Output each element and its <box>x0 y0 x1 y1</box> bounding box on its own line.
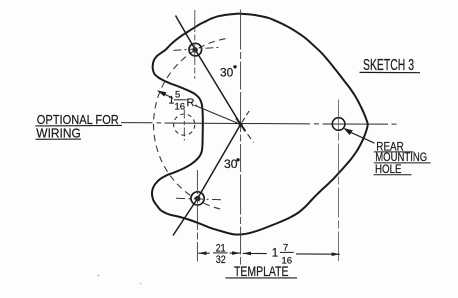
dim line 1 7/16 left arrow <box>243 252 267 254</box>
underline HOLE <box>374 174 412 176</box>
underline MOUNTING <box>374 162 431 164</box>
bottom hole horizontal crosshair <box>176 198 224 200</box>
dashed extension of bottom 30-deg line <box>241 110 250 124</box>
bottom hole <box>191 192 204 205</box>
scan speck <box>98 275 100 277</box>
svg-text:SKETCH 3: SKETCH 3 <box>363 57 414 74</box>
rear mounting hole <box>332 118 345 131</box>
top hole vertical crosshair <box>194 10 196 79</box>
underline TEMPLATE <box>226 277 298 279</box>
rear hole vertical crosshair / extension line <box>337 100 339 262</box>
center junction <box>239 122 243 126</box>
svg-text:30: 30 <box>224 159 238 171</box>
dim line 21/32 left arrow <box>198 252 210 254</box>
radius leader line <box>158 91 241 124</box>
radius arrowhead <box>157 90 167 96</box>
bottom hole vertical crosshair / extension line <box>196 170 198 262</box>
bolt circle (dashed, 1 5/16 R) <box>154 39 226 210</box>
svg-text:WIRING: WIRING <box>36 125 81 140</box>
top hole horizontal crosshair <box>174 47 221 50</box>
svg-text:HOLE: HOLE <box>375 162 402 176</box>
template outline <box>152 14 368 235</box>
vertical centerline <box>240 10 242 265</box>
wire hole dashed circle <box>174 114 195 135</box>
svg-text:TEMPLATE: TEMPLATE <box>234 263 289 279</box>
svg-text:32: 32 <box>216 254 226 266</box>
rear hole leader arrowhead <box>343 128 353 135</box>
underline WIRING <box>36 138 82 140</box>
top hole <box>189 43 202 56</box>
svg-text:5: 5 <box>175 90 180 101</box>
dim line 1 7/16 right arrow <box>296 253 340 255</box>
wire hole vertical crosshair <box>183 110 185 141</box>
underline OPTIONAL FOR <box>36 124 123 127</box>
svg-text:16: 16 <box>175 102 186 113</box>
dim line 21/32 right arrow <box>230 252 241 254</box>
svg-text:1: 1 <box>272 247 278 259</box>
30-deg line to bottom hole <box>173 124 241 235</box>
svg-text:7: 7 <box>283 242 288 253</box>
dashed extension of top 30-deg line <box>241 124 254 142</box>
underline SKETCH 3 <box>360 71 421 73</box>
rear hole leader line <box>346 130 375 143</box>
horizontal centerline <box>121 123 397 125</box>
svg-text:1: 1 <box>168 95 174 107</box>
scan speck <box>140 283 142 285</box>
30-deg line to top hole <box>176 16 241 125</box>
degree dot top <box>233 65 236 68</box>
underline REAR <box>374 151 414 153</box>
svg-text:30: 30 <box>220 68 233 80</box>
svg-text:R.: R. <box>187 97 198 109</box>
degree dot bottom <box>236 158 239 161</box>
